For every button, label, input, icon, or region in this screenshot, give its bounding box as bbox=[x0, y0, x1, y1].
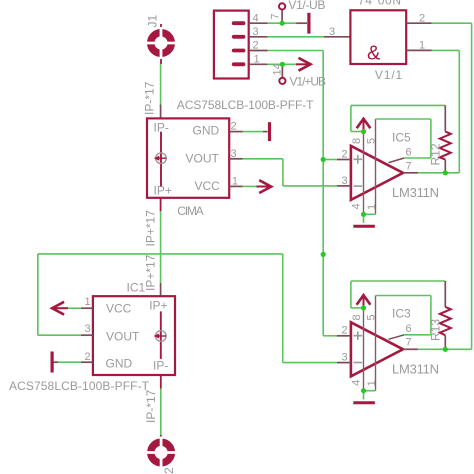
wire gate out2 to IC3 pin7 bbox=[432, 23, 472, 349]
pin 7 of IC5 bbox=[403, 172, 418, 174]
svg-text:&: & bbox=[367, 43, 381, 65]
svg-text:IP+: IP+ bbox=[149, 298, 167, 312]
svg-text:8: 8 bbox=[351, 138, 363, 144]
svg-text:CIMA: CIMA bbox=[177, 204, 204, 218]
resistor R13 bbox=[440, 281, 451, 349]
wire IC1 VCC to arrow bbox=[66, 307, 81, 309]
svg-text:8: 8 bbox=[351, 314, 363, 320]
IC1 internal current path bbox=[154, 311, 167, 359]
VCC arrow at IC3 pin 8 bbox=[357, 295, 371, 308]
pin 4 of connector bbox=[249, 22, 268, 24]
resistor R12 bbox=[440, 105, 451, 172]
svg-text:R13: R13 bbox=[428, 319, 442, 341]
wire IC5 V+ net to R12 top bbox=[351, 105, 445, 131]
wire net IP+ CIMA to IC1 bbox=[160, 198, 162, 283]
svg-text:2: 2 bbox=[342, 325, 348, 337]
svg-text:VCC: VCC bbox=[195, 179, 221, 193]
svg-text:ACS758LCB-100B-PFF-T: ACS758LCB-100B-PFF-T bbox=[177, 98, 314, 112]
supply bar at CIMA GND bbox=[263, 122, 270, 141]
wire CIMA VOUT to IC5 pin3 bbox=[243, 159, 337, 186]
pin 6 of IC3 (diagonal) bbox=[389, 335, 405, 340]
wire IC3 ground net bbox=[364, 391, 376, 400]
pin 2 of IC3 bbox=[337, 335, 351, 337]
pin 8 and pin 4 internal line of IC5 bbox=[363, 132, 365, 215]
pin 2 of IC5 bbox=[337, 159, 351, 161]
svg-text:VCC: VCC bbox=[106, 301, 132, 315]
pin 3 of connector bbox=[249, 36, 268, 38]
arrow at CIMA VCC bbox=[257, 180, 272, 193]
arrow at IC1 VCC (left) bbox=[52, 302, 68, 315]
svg-text:4: 4 bbox=[351, 380, 363, 386]
svg-text:VOUT: VOUT bbox=[186, 151, 220, 165]
svg-text:7: 7 bbox=[270, 13, 282, 19]
CIMA internal current path bbox=[154, 132, 167, 187]
svg-text:3: 3 bbox=[85, 323, 91, 335]
pin 3 of gate V1/1 bbox=[324, 36, 351, 38]
junction node V1/-UB bbox=[280, 21, 285, 26]
svg-text:ACS758LCB-100B-PFF-T: ACS758LCB-100B-PFF-T bbox=[9, 379, 150, 393]
VCC arrow at IC5 pin 8 bbox=[357, 119, 371, 132]
svg-text:R12: R12 bbox=[428, 143, 442, 165]
svg-text:IC1: IC1 bbox=[127, 281, 146, 295]
wire net from connector pin2 down to comparators bbox=[268, 51, 324, 336]
svg-text:3: 3 bbox=[342, 352, 348, 364]
svg-text:6: 6 bbox=[406, 147, 412, 159]
pin 5 and pin 1 internal line of IC3 bbox=[375, 296, 377, 391]
svg-text:1: 1 bbox=[232, 176, 238, 188]
junction node IC3 pin4 bbox=[361, 388, 366, 393]
svg-text:V1/-UB: V1/-UB bbox=[288, 0, 325, 12]
pin IP+ of IC1 (stub) bbox=[160, 283, 162, 296]
junction node V1/+UB bbox=[280, 62, 285, 67]
svg-text:2: 2 bbox=[253, 40, 259, 52]
junction node on vertical net bbox=[321, 252, 326, 257]
connector block (4-pin header) bbox=[214, 11, 249, 79]
svg-text:IP-*17: IP-*17 bbox=[144, 389, 158, 423]
svg-text:7: 7 bbox=[406, 160, 412, 172]
svg-text:V1/+UB: V1/+UB bbox=[290, 75, 327, 89]
wire net IP- from J1 to CIMA bbox=[160, 54, 162, 106]
pin 3 VOUT of IC1 bbox=[81, 334, 93, 336]
pin 8 and pin 4 internal line of IC3 bbox=[363, 308, 365, 391]
svg-text:3: 3 bbox=[253, 26, 259, 38]
pin 1 of connector bbox=[249, 63, 268, 65]
svg-text:IC3: IC3 bbox=[392, 307, 411, 321]
wire net to gate input 3 bbox=[268, 36, 324, 38]
pin 1 VCC of CIMA bbox=[229, 185, 243, 187]
connector pad 2 (bottom) bbox=[145, 437, 177, 469]
junction node IC3 pin8 bbox=[361, 305, 366, 310]
comparator IC5 LM311N bbox=[351, 146, 403, 200]
svg-text:1: 1 bbox=[366, 204, 378, 210]
svg-text:4: 4 bbox=[253, 12, 259, 24]
svg-text:2: 2 bbox=[231, 121, 237, 133]
svg-text:V1/1: V1/1 bbox=[375, 68, 403, 82]
wire IC1 GND to supply bar bbox=[57, 361, 81, 363]
svg-text:1: 1 bbox=[419, 40, 425, 52]
pin 3 of IC3 bbox=[337, 362, 351, 364]
sensor IC1 box bbox=[93, 296, 175, 375]
arrow V1/+UB bbox=[296, 58, 311, 71]
svg-text:2: 2 bbox=[85, 351, 91, 363]
wire IC3 out to gate bbox=[418, 348, 472, 350]
svg-text:IP-*17: IP-*17 bbox=[143, 81, 157, 115]
svg-text:IP+*17: IP+*17 bbox=[144, 254, 158, 291]
svg-text:6: 6 bbox=[406, 323, 412, 335]
svg-text:3: 3 bbox=[329, 26, 335, 38]
svg-text:2: 2 bbox=[419, 12, 425, 24]
wire net VOUT-IC1 feedback (long) bbox=[38, 254, 337, 363]
svg-text:1: 1 bbox=[85, 296, 91, 308]
pin 1 VCC of IC1 bbox=[81, 307, 93, 309]
port circle V1/-UB bbox=[279, 3, 285, 23]
svg-text:IP-: IP- bbox=[153, 359, 168, 373]
svg-text:7: 7 bbox=[406, 337, 412, 349]
svg-text:GND: GND bbox=[193, 124, 220, 138]
pin 3 VOUT of CIMA bbox=[229, 158, 243, 160]
svg-text:5: 5 bbox=[366, 138, 378, 144]
gate U=V1/1 74*00N bbox=[350, 10, 406, 64]
svg-text:J1: J1 bbox=[146, 15, 160, 28]
junction node IC5 pin8 bbox=[361, 129, 366, 134]
pin 5 and pin 1 internal line of IC5 bbox=[375, 119, 377, 214]
ground symbol IC5 bbox=[353, 225, 375, 228]
ground symbol IC3 bbox=[353, 401, 375, 404]
svg-text:1: 1 bbox=[366, 380, 378, 386]
svg-text:LM311N: LM311N bbox=[392, 185, 439, 200]
ground bar at IC1 GND bbox=[52, 352, 58, 373]
svg-text:2: 2 bbox=[342, 148, 348, 160]
svg-text:3: 3 bbox=[342, 175, 348, 187]
svg-text:3: 3 bbox=[231, 148, 237, 160]
pin 2 of gate bbox=[406, 22, 431, 24]
svg-text:IP+*17: IP+*17 bbox=[144, 210, 158, 247]
pin 6 of IC5 (diagonal) bbox=[389, 158, 405, 163]
svg-text:5: 5 bbox=[366, 314, 378, 320]
wire IC3 pin5-pin6 net bbox=[376, 296, 431, 335]
svg-text:4: 4 bbox=[351, 203, 363, 209]
pin 2 of connector bbox=[249, 50, 268, 52]
junction node IC5 pin2 bbox=[321, 157, 326, 162]
pin 3 of IC5 bbox=[337, 185, 351, 187]
svg-text:VOUT: VOUT bbox=[106, 330, 140, 344]
pin 1 of gate bbox=[406, 49, 431, 51]
wire to IC3 pin2 bbox=[323, 335, 337, 337]
svg-text:IC5: IC5 bbox=[392, 130, 411, 144]
pin 2 GND of IC1 bbox=[81, 361, 93, 363]
junction node IC5 pin4 bbox=[361, 212, 366, 217]
wire gate out1 to IC5 pin7 bbox=[432, 50, 460, 172]
wire IC5 pin5-pin6 net bbox=[376, 119, 431, 158]
svg-text:1: 1 bbox=[254, 53, 260, 65]
wire CIMA VCC to arrow bbox=[243, 185, 259, 187]
port circle V1/+UB bbox=[279, 64, 285, 84]
wire IC3 V+ net to R13 top bbox=[351, 281, 445, 308]
svg-text:GND: GND bbox=[106, 357, 133, 371]
sensor CIMA box bbox=[147, 118, 229, 197]
wire IC5 out to gate bbox=[418, 172, 459, 174]
wire net V1/-UB row bbox=[268, 22, 296, 24]
pin 2 GND of CIMA bbox=[229, 131, 243, 133]
wire IC5 ground net bbox=[364, 214, 376, 223]
wire to IC5 pin2 bbox=[323, 159, 337, 161]
pin IP- of CIMA (stub) bbox=[160, 105, 162, 119]
svg-text:IP+: IP+ bbox=[154, 183, 172, 197]
pin 7 of IC3 bbox=[403, 348, 418, 350]
comparator IC3 LM311N bbox=[351, 322, 403, 376]
svg-text:2: 2 bbox=[162, 467, 176, 474]
supply bar V1/-UB bbox=[296, 13, 309, 34]
junction node R12/IC5 out bbox=[443, 170, 448, 175]
junction node R13/IC3 out bbox=[443, 347, 448, 352]
wire net IP- IC1 to pad 2 bbox=[160, 375, 162, 443]
svg-text:74*00N: 74*00N bbox=[358, 0, 401, 8]
svg-text:LM311N: LM311N bbox=[392, 361, 439, 376]
wire CIMA GND to supply bar bbox=[243, 131, 263, 133]
wire net V1/+UB row bbox=[268, 63, 299, 65]
connector pad J1 bbox=[145, 24, 177, 59]
